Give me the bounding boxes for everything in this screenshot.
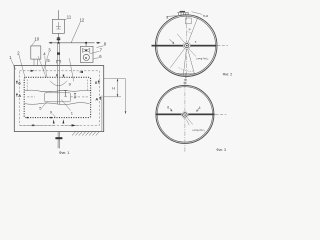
svg-text:ω=φ-²π/₃: ω=φ-²π/₃ bbox=[196, 56, 209, 60]
hub center dot bbox=[186, 45, 188, 47]
valve bowtie bbox=[82, 48, 89, 52]
inner vessel dotted wall bbox=[24, 77, 90, 117]
leader 9 lower bbox=[53, 114, 56, 117]
dimension mid extension line bbox=[104, 96, 121, 98]
dash line left of chamber bbox=[27, 96, 35, 98]
flow arrow left on jacket top right part bbox=[79, 71, 83, 73]
right side drain pipe bbox=[101, 96, 103, 132]
diameter bar bbox=[152, 45, 217, 47]
leader 2 bbox=[19, 55, 25, 78]
leader 3 bbox=[44, 52, 50, 70]
angle phi dashed arc bbox=[186, 32, 191, 34]
lower liquid wavy line bbox=[24, 103, 89, 105]
inlet arrow on vessel top bbox=[63, 75, 65, 78]
drop line from pipe to valve box bbox=[85, 44, 87, 47]
svg-text:ω=φ-²π/₃: ω=φ-²π/₃ bbox=[192, 128, 205, 132]
spoke upper right bbox=[187, 18, 198, 46]
box 11 (drive unit) bbox=[52, 19, 64, 33]
right leader arrow fig3 bbox=[197, 108, 199, 111]
bottom dashed flow line bbox=[20, 124, 79, 126]
leader to label p-a bbox=[192, 12, 203, 15]
inlet arrow left of shaft bbox=[56, 74, 58, 77]
leader for label 7 bbox=[90, 51, 100, 54]
leader 5 bbox=[38, 56, 46, 77]
vertical centerline bbox=[185, 16, 187, 78]
motor M circle bbox=[83, 54, 89, 60]
dimension H arrow bottom bbox=[117, 94, 119, 97]
top tick marks fig3 bbox=[184, 82, 187, 83]
comb top dark marks bbox=[180, 11, 185, 12]
dark speck on vessel bottom mid bbox=[50, 117, 52, 118]
leader for label 8 bbox=[97, 46, 104, 48]
svg-text:п-а: п-а bbox=[203, 14, 208, 18]
leader for label 10 bbox=[31, 41, 35, 46]
junction dot at shaft bbox=[58, 42, 60, 44]
small level dimension h2 bbox=[74, 93, 76, 98]
drum outer rim fig3 bbox=[156, 85, 214, 143]
shaft below pipe into vessel bbox=[58, 43, 60, 66]
leader line for label 12 bbox=[71, 22, 80, 43]
chamber box around shaft bbox=[45, 93, 71, 102]
flow arrow on jacket bottom right bbox=[72, 124, 76, 126]
dark speck on vessel bottom left bbox=[27, 117, 29, 118]
bucket box below apex bbox=[185, 18, 191, 24]
right centerline extension bbox=[216, 45, 228, 47]
hub leader 2 fig3 bbox=[187, 120, 190, 126]
bottom flow arrow right bbox=[72, 124, 76, 126]
bottom drain ticks bbox=[184, 80, 187, 81]
section marker b left arrow bbox=[16, 81, 18, 84]
box 10 (hopper) bbox=[31, 46, 41, 59]
right centerline extension fig3 bbox=[215, 113, 227, 115]
top comb feeder bbox=[177, 13, 188, 15]
spoke lower left bbox=[170, 46, 187, 68]
svg-text:А: А bbox=[95, 97, 98, 102]
dash line right of chamber bbox=[71, 96, 89, 98]
left leader arrow fig3 bbox=[170, 108, 172, 111]
dimension H vertical bbox=[117, 79, 119, 97]
shaft above box 11 bbox=[58, 10, 60, 19]
bottom coupling flange bbox=[55, 137, 62, 139]
svg-text:12: 12 bbox=[80, 17, 85, 22]
section marker B right arrow bbox=[98, 81, 100, 84]
svg-text:11: 11 bbox=[67, 15, 72, 20]
shaft from box 11 to pipe bbox=[58, 33, 60, 42]
hub white mask fig3 bbox=[181, 111, 188, 118]
flow arrow right on jacket top bbox=[31, 70, 35, 72]
leader 5 lower bbox=[42, 101, 48, 107]
diameter bar fig3 bbox=[156, 114, 215, 116]
valve box 6 bbox=[81, 46, 94, 62]
dashed jacket rectangle bbox=[20, 71, 100, 126]
horizontal pipe line bbox=[49, 42, 98, 44]
svg-text:6: 6 bbox=[167, 105, 169, 109]
symbol inside box 11 bbox=[56, 22, 61, 29]
hub middle ring fig3 bbox=[183, 113, 188, 118]
long vertical dimension to fig3 level bbox=[125, 79, 127, 114]
bottom output shaft bbox=[58, 132, 59, 149]
hub white mask bbox=[183, 42, 190, 49]
svg-text:Фиг. 1: Фиг. 1 bbox=[59, 150, 70, 155]
leader 4 bbox=[45, 56, 47, 78]
drum inner rim fig3 bbox=[157, 87, 212, 142]
hub inner ring fig3 bbox=[184, 114, 186, 116]
dimension H arrow top bbox=[117, 79, 119, 82]
valve actuator circle bbox=[85, 49, 87, 51]
spoke lower right bbox=[187, 46, 195, 75]
hub middle ring bbox=[185, 44, 189, 48]
right arrowhead of pipe bbox=[97, 42, 100, 44]
vertical centerline fig3 bbox=[184, 84, 186, 152]
upper-left leader arrow to bar bbox=[170, 39, 175, 43]
shaft coupling bulge bbox=[57, 52, 60, 54]
stand under box 10 bbox=[34, 59, 38, 65]
svg-text:φ: φ bbox=[189, 27, 191, 31]
svg-text:А: А bbox=[18, 93, 21, 98]
left arrowhead of pipe bbox=[49, 42, 52, 44]
long dimension bottom arrow bbox=[125, 111, 127, 114]
outer tank box bbox=[14, 66, 103, 132]
svg-text:Фиг. 2: Фиг. 2 bbox=[223, 73, 233, 77]
svg-text:Фиг. 3: Фиг. 3 bbox=[216, 148, 226, 152]
up arrow below vessel left bbox=[53, 119, 55, 123]
draft tube dashed line left bbox=[26, 80, 28, 91]
vortex funnel curve bbox=[50, 81, 67, 86]
spoke lower mid bbox=[183, 46, 187, 76]
drum outer rim bbox=[155, 15, 217, 77]
svg-text:10: 10 bbox=[34, 36, 39, 41]
junction dot at valve feed bbox=[85, 42, 87, 44]
flow arrow on jacket bottom left bbox=[32, 125, 35, 127]
coupling on upper shaft bbox=[57, 37, 61, 39]
svg-text:4: 4 bbox=[199, 106, 201, 110]
top tangent feed line bbox=[167, 15, 190, 16]
section marker A left arrow bbox=[16, 94, 18, 97]
small level dimension h1 bbox=[64, 91, 66, 97]
hub leader 1 fig3 bbox=[187, 118, 193, 125]
section marker A right arrow bbox=[100, 97, 102, 100]
hatching under tank bottom right bbox=[72, 132, 99, 136]
leader to formula a bbox=[189, 49, 197, 57]
angle arc lower fig2 bbox=[179, 68, 194, 72]
drum inner rim bbox=[157, 16, 216, 75]
label 9 upper with leader bbox=[69, 58, 73, 81]
upper liquid wavy line bbox=[24, 90, 90, 92]
draft tube dashed line right bbox=[87, 80, 89, 91]
up arrow below vessel right bbox=[63, 119, 65, 123]
bottom drain stem bbox=[184, 73, 186, 78]
leader for label 11 bbox=[64, 18, 66, 21]
label 7 lower with leader bbox=[61, 99, 70, 110]
leader 1 bbox=[11, 59, 16, 69]
spoke upper left fig2 bbox=[177, 34, 187, 46]
agitator shaft inside vessel bbox=[58, 66, 60, 105]
svg-text:Н: Н bbox=[112, 86, 115, 90]
stuffing gland flange bbox=[56, 60, 61, 63]
bottom chord shelf bbox=[177, 72, 196, 74]
leader for label 6 bbox=[93, 58, 99, 59]
dimension top extension line bbox=[104, 78, 126, 80]
